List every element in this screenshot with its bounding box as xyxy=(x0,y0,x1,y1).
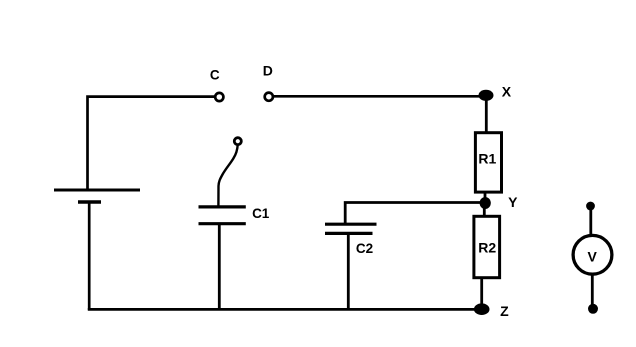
wire xyxy=(589,206,592,237)
capacitor C2 xyxy=(325,224,377,233)
capacitor C1 xyxy=(199,207,246,224)
wire xyxy=(347,234,350,310)
switch terminal C xyxy=(215,93,223,101)
battery xyxy=(54,190,140,202)
switch terminal D xyxy=(265,93,273,101)
wire xyxy=(88,202,91,310)
wire xyxy=(88,97,215,189)
voltmeter V xyxy=(573,235,612,274)
wire xyxy=(218,224,221,309)
wire xyxy=(483,203,486,217)
wire xyxy=(274,95,487,98)
node X xyxy=(479,90,494,101)
wire xyxy=(218,145,237,207)
wire xyxy=(484,192,487,204)
svg-text:V: V xyxy=(588,248,598,264)
svg-text:Y: Y xyxy=(508,194,518,210)
wire xyxy=(88,308,482,311)
voltmeter terminal dot xyxy=(586,202,595,211)
svg-text:C2: C2 xyxy=(356,241,373,256)
resistor R2 xyxy=(474,216,500,277)
wire xyxy=(485,95,488,134)
svg-text:C1: C1 xyxy=(252,206,270,221)
wire xyxy=(591,273,594,307)
svg-text:D: D xyxy=(263,63,273,79)
node Y xyxy=(480,197,491,209)
voltmeter terminal dot xyxy=(588,304,598,314)
svg-text:Z: Z xyxy=(500,303,509,319)
wire xyxy=(345,203,486,225)
resistor R1 xyxy=(475,133,501,192)
node Z xyxy=(474,303,490,315)
svg-text:R2: R2 xyxy=(478,239,496,255)
svg-text:X: X xyxy=(502,84,512,100)
svg-text:R1: R1 xyxy=(478,150,496,166)
switch flying lead terminal xyxy=(234,138,241,145)
wire xyxy=(480,278,483,308)
svg-text:C: C xyxy=(210,67,220,82)
